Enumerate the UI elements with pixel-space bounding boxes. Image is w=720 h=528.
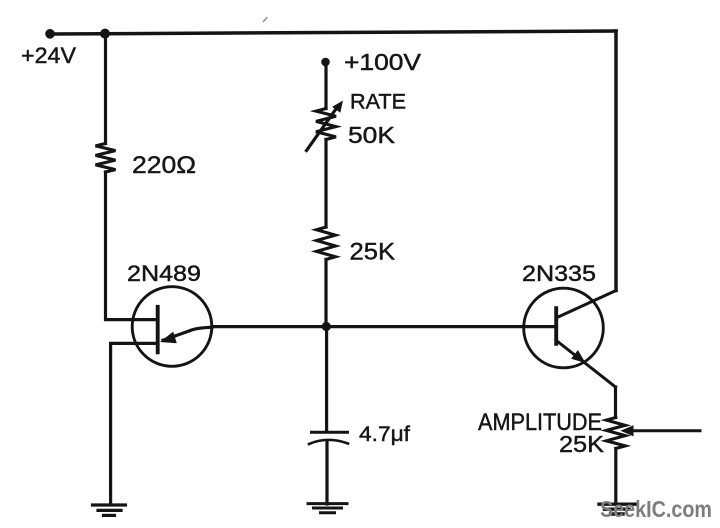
wire right vertical (top rail to Q2 collector) bbox=[614, 31, 618, 291]
wire potentiometer to ground bbox=[614, 449, 617, 505]
variable resistor RATE 50K bbox=[307, 101, 344, 151]
resistor 25K bbox=[317, 227, 336, 260]
node +24V terminal dot bbox=[45, 29, 55, 39]
node +100V terminal dot bbox=[321, 58, 330, 67]
svg-text:4.7μf: 4.7μf bbox=[359, 423, 410, 446]
svg-text:2N489: 2N489 bbox=[127, 261, 201, 286]
svg-text:50K: 50K bbox=[348, 122, 396, 148]
svg-text:25K: 25K bbox=[559, 431, 605, 457]
ground left bbox=[93, 505, 126, 515]
svg-text:+100V: +100V bbox=[344, 49, 422, 75]
svg-text:25K: 25K bbox=[350, 239, 396, 266]
svg-text:SeekIC.com: SeekIC.com bbox=[600, 496, 712, 522]
node junction top-left bbox=[100, 29, 110, 39]
wiper arrow of potentiometer bbox=[633, 429, 700, 432]
wire +100V stem bbox=[324, 62, 327, 109]
wire Q2 emitter to potentiometer bbox=[614, 387, 617, 418]
svg-text:RATE: RATE bbox=[350, 90, 406, 114]
ground right bbox=[599, 504, 636, 514]
svg-text:220Ω: 220Ω bbox=[132, 152, 196, 179]
ground middle bbox=[308, 504, 347, 513]
transistor Q1 2N489 (UJT) bbox=[132, 287, 212, 367]
scan speck artifact bbox=[264, 18, 268, 22]
wire node to capacitor bbox=[325, 327, 328, 432]
wire main horizontal (Q1 emitter to Q2 base) bbox=[212, 325, 557, 328]
resistor 220 ohm bbox=[96, 144, 116, 173]
wire left vertical upper (rail to 220 ohm) bbox=[104, 34, 107, 144]
transistor Q2 2N335 bbox=[524, 288, 616, 387]
wire capacitor to ground bbox=[325, 442, 328, 505]
capacitor C 4.7uf bbox=[309, 432, 348, 444]
svg-text:+24V: +24V bbox=[21, 43, 76, 68]
wire RATE to 25K bbox=[324, 140, 327, 228]
potentiometer AMPLITUDE 25K bbox=[606, 418, 700, 449]
wire top rail +24V bus bbox=[50, 31, 616, 34]
node center junction bbox=[322, 322, 331, 331]
wire 25K to center node bbox=[324, 260, 327, 327]
wire Q1 base-1 lead down to ground bbox=[111, 343, 157, 504]
wire left vertical lower and Q1 base-2 lead bbox=[106, 172, 157, 320]
svg-text:2N335: 2N335 bbox=[522, 261, 596, 286]
